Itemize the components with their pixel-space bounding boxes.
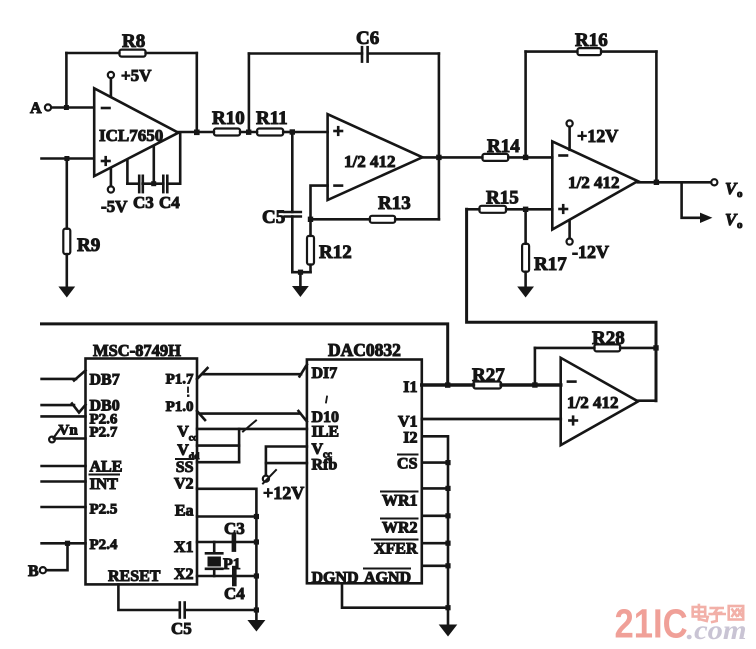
svg-text:DB7: DB7 [90, 372, 120, 389]
wire +12V to Vcc and Rfb [266, 447, 307, 476]
+12V supply terminal (DAC) [263, 470, 304, 503]
watermark logo 21IC [615, 602, 688, 647]
node junction R17 top [523, 207, 528, 212]
node junction on inverting input [64, 105, 69, 110]
pin INT (overline) [42, 475, 119, 494]
svg-text:X2: X2 [174, 566, 194, 583]
IC U5 MSC-8749H box [86, 341, 198, 584]
svg-text:+12V: +12V [577, 126, 618, 146]
wire U2 output [422, 156, 482, 159]
pin ALE [42, 458, 123, 475]
wire U1 output to R10 [178, 131, 214, 134]
pin P2.6 [42, 411, 118, 427]
svg-text:ILE: ILE [312, 424, 340, 441]
+12V supply terminal (U3) [567, 120, 619, 149]
svg-text:B: B [28, 563, 39, 580]
+5V supply terminal [108, 66, 152, 97]
svg-text:RESET: RESET [108, 568, 161, 585]
node junction R28 tap [532, 382, 537, 387]
pin P2.5 [42, 502, 118, 518]
svg-text:R8: R8 [122, 31, 145, 52]
svg-text:o: o [737, 188, 743, 200]
svg-text:V1: V1 [398, 414, 418, 431]
node junction AGND rail [445, 563, 450, 568]
ground (R9) [58, 287, 75, 298]
capacitor C4 (op-amp U1) [159, 176, 180, 212]
pin X2 [174, 566, 256, 583]
pin V1 [398, 414, 561, 431]
node junction R12 top [308, 217, 313, 222]
svg-text:C6: C6 [356, 28, 379, 49]
svg-text:SS: SS [176, 459, 194, 476]
capacitor C6 [356, 28, 379, 62]
svg-text:P2.5: P2.5 [90, 502, 118, 518]
resistor R12 [307, 219, 352, 272]
ground (C5 R12) [292, 272, 309, 297]
pin P1.0 [166, 399, 205, 420]
resistor R15 [479, 188, 518, 213]
capacitor C3 (crystal) [224, 519, 245, 550]
pin P2.7 and Vn input [49, 423, 118, 443]
svg-text:V: V [177, 442, 189, 459]
svg-text:CS: CS [397, 455, 418, 472]
pin CS (overline) [397, 455, 448, 473]
pin Vcc (DAC) [312, 441, 333, 461]
wire Vo branch [682, 182, 701, 218]
node Vo terminal circle [711, 179, 743, 200]
ground (DAC rail) [439, 625, 458, 637]
watermark logo .com [687, 615, 747, 645]
wire junction up to C6 line [248, 54, 251, 132]
resistor R17 [522, 209, 567, 287]
wire slash on ILE line [243, 421, 256, 432]
pin Vdd (MSC) [177, 442, 239, 462]
wire U2 inverting input feedback [311, 186, 328, 220]
svg-text:ALE: ALE [90, 458, 123, 475]
wire bottom join C5 R12 [292, 271, 310, 274]
svg-text:1/2 412: 1/2 412 [344, 152, 395, 171]
svg-text:R17: R17 [534, 254, 567, 275]
pin WR1 (overline) [381, 488, 448, 509]
svg-text:R12: R12 [319, 242, 352, 263]
node junction CS rail [445, 460, 450, 465]
pin Ea [175, 503, 257, 520]
pin X1 [174, 539, 256, 556]
resistor R14 [482, 136, 552, 161]
pin DB0 [42, 398, 120, 415]
node junction B to P2.4 [65, 541, 70, 546]
resistor R8 [66, 31, 196, 57]
pin XFER (overline) [372, 540, 448, 558]
wire A to op-amp inverting input [52, 106, 95, 109]
svg-text:P1.0: P1.0 [166, 399, 194, 415]
svg-text:DAC0832: DAC0832 [328, 340, 401, 360]
node junction DGND rail [445, 605, 450, 610]
svg-text:R27: R27 [472, 365, 505, 386]
node junction XFER rail [445, 541, 450, 546]
resistor R16 [526, 30, 657, 55]
svg-text:MSC-8749H: MSC-8749H [93, 341, 181, 360]
node junction X1 rail [254, 539, 259, 544]
svg-text:P1: P1 [223, 556, 241, 573]
node junction WR1 rail [445, 486, 450, 491]
node junction R10-R11 [246, 130, 251, 135]
svg-text:R9: R9 [77, 235, 100, 256]
svg-text:Vn: Vn [59, 423, 79, 439]
svg-text:WR2: WR2 [382, 519, 418, 536]
svg-text:C4: C4 [159, 193, 180, 212]
wire R16 right vertical [655, 52, 658, 183]
svg-text:I2: I2 [403, 430, 417, 447]
svg-text:C5: C5 [262, 207, 285, 228]
wire C6 right vertical [438, 54, 441, 220]
svg-text:Ea: Ea [175, 503, 194, 520]
pin range mark P1.7-P1.0 [187, 388, 189, 397]
svg-text:V: V [312, 441, 324, 458]
resistor R11 [256, 108, 292, 136]
node junction Ea rail [254, 514, 259, 519]
svg-text:Rfb: Rfb [312, 457, 338, 474]
op-amp U3 1/2 412 [552, 141, 638, 229]
-12V supply terminal (U3) [567, 221, 610, 262]
svg-text:XFER: XFER [374, 541, 418, 558]
IC U6 DAC0832 box [307, 340, 422, 583]
node junction output-C6 vertical [436, 155, 441, 160]
wire R8 left vertical [65, 53, 68, 108]
svg-text:R10: R10 [212, 108, 245, 129]
svg-text:ICL7650: ICL7650 [99, 126, 163, 145]
node junction WR2 rail [445, 513, 450, 518]
resistor R28 [535, 328, 656, 351]
wire C5 branch vertical [291, 132, 294, 272]
capacitor C5 (filter) [262, 207, 301, 228]
node Vo arrow output [700, 210, 743, 231]
svg-text:DI7: DI7 [312, 365, 338, 382]
svg-text:.com: .com [687, 615, 747, 645]
svg-text:R16: R16 [575, 30, 608, 51]
watermark logo chinese dianzi wang [693, 605, 744, 622]
pin V2 [174, 476, 256, 611]
svg-text:DGND: DGND [312, 570, 359, 587]
svg-text:V2: V2 [174, 476, 194, 493]
svg-text:AGND: AGND [364, 570, 411, 587]
-5V supply terminal [101, 169, 128, 216]
svg-text:P1.7: P1.7 [166, 372, 194, 388]
pin DGND AGND labels [312, 569, 412, 587]
wire R16 left vertical [524, 52, 527, 158]
node B input terminal [28, 543, 68, 580]
node junction R9 top [64, 156, 69, 161]
pin DB7 [42, 371, 120, 389]
node junction R16 left vertical [523, 155, 528, 160]
wire R11 to U2 non-inverting input [292, 131, 327, 134]
wire C3 C4 risers and bus under U1 [127, 134, 180, 187]
svg-text:-5V: -5V [101, 197, 128, 216]
svg-text:1/2 412: 1/2 412 [568, 173, 619, 192]
svg-text:C3: C3 [133, 193, 154, 212]
node junction output of U1 [194, 130, 200, 136]
wire R15 input line [467, 208, 553, 211]
wire non-inverting input [42, 157, 95, 160]
svg-text:C5: C5 [171, 619, 192, 638]
svg-text:C4: C4 [224, 584, 245, 603]
svg-text:R14: R14 [487, 136, 520, 157]
node junction C5 rail [254, 607, 259, 612]
svg-text:WR1: WR1 [382, 492, 418, 509]
capacitor C5 (reset) [171, 603, 256, 639]
svg-text:o: o [737, 219, 743, 231]
wire U3 output [638, 181, 711, 184]
svg-text:R15: R15 [486, 188, 519, 209]
svg-text:P2.4: P2.4 [90, 537, 118, 553]
wire P1.7 to DI7 bus [203, 365, 307, 377]
wire Vcc-Vdd-SS tie vertical [238, 429, 241, 462]
ground (R17) [517, 287, 534, 298]
wire R8 right vertical to output node [196, 53, 199, 132]
svg-text:-12V: -12V [572, 242, 609, 262]
node junction net A on I1 wire [445, 382, 450, 387]
svg-text:X1: X1 [174, 539, 194, 556]
capacitor C3 (op-amp U1) [133, 176, 154, 212]
svg-text:21IC: 21IC [615, 602, 688, 647]
resistor R13 [311, 193, 439, 223]
node junction R28 right [653, 345, 658, 350]
pin SS (overline) [176, 459, 239, 476]
svg-text:cc: cc [189, 434, 197, 444]
op-amp U4 1/2 412 [561, 358, 638, 445]
wire net B horizontal (U4 output to R15) [467, 209, 656, 400]
svg-text:R13: R13 [378, 193, 411, 214]
capacitor C4 (crystal) [224, 568, 245, 603]
resistor R9 [63, 159, 100, 288]
node junction after R11 [290, 129, 295, 134]
pin P2.4 [42, 537, 118, 553]
node junction X2 rail [254, 573, 259, 578]
node junction output R16 [654, 180, 659, 185]
svg-text:I1: I1 [403, 379, 417, 396]
svg-text:R11: R11 [256, 108, 288, 129]
svg-text:A: A [30, 100, 42, 117]
pin AGND wire [422, 564, 448, 567]
op-amp U1 ICL7650 [94, 88, 178, 176]
svg-text:1/2 412: 1/2 412 [567, 393, 618, 412]
svg-text:V: V [177, 424, 189, 441]
svg-text:P2.7: P2.7 [90, 424, 118, 440]
resistor R27 [472, 365, 561, 389]
pin range mark DI7-DI0 [326, 397, 327, 403]
wire C6 top line [249, 52, 439, 55]
wire DGND bottom loop [342, 583, 448, 607]
pin I1 [403, 379, 473, 396]
wire net A horizontal (to I1 node) [42, 324, 448, 385]
pin Vcc (MSC) [177, 424, 307, 444]
pin WR2 (overline) [381, 516, 448, 537]
wire U4 output [638, 399, 656, 402]
op-amp U2 1/2 412 [328, 114, 423, 200]
svg-text:INT: INT [90, 476, 119, 493]
wire R28 left vertical [534, 348, 537, 385]
pin I2 [403, 430, 448, 625]
wire RESET to C5 [118, 584, 178, 610]
ground (MSC rail) [247, 610, 265, 632]
svg-text:+12V: +12V [263, 483, 304, 503]
svg-text:R28: R28 [592, 328, 625, 349]
resistor R10 [212, 108, 257, 136]
crystal P1 [206, 542, 241, 576]
pin P1.7 [166, 368, 208, 388]
node junction ground C5 R12 [298, 270, 303, 275]
svg-text:+5V: +5V [121, 66, 152, 85]
wire P1.0 to DI0 bus [201, 411, 307, 422]
node A input terminal [30, 100, 51, 117]
